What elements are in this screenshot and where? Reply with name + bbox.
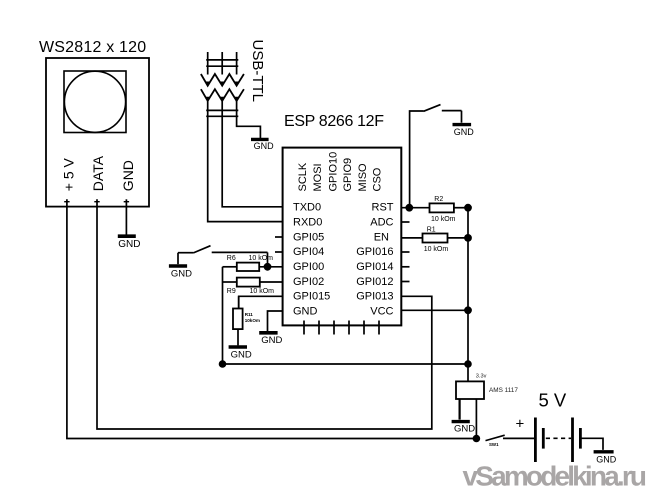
pin +5V of WS2812	[60, 157, 76, 201]
svg-text:+ 5 V: + 5 V	[60, 157, 76, 191]
svg-text:GPI05: GPI05	[293, 232, 324, 244]
svg-text:GPIO9: GPIO9	[342, 158, 354, 192]
junction left rail corner	[219, 360, 227, 368]
svg-text:10 kOm: 10 kOm	[424, 246, 449, 253]
svg-text:GND: GND	[454, 424, 475, 435]
pin GPI05	[275, 232, 324, 244]
svg-text:GND: GND	[231, 349, 252, 360]
svg-text:10 kOm: 10 kOm	[249, 255, 274, 262]
resistor R6	[223, 263, 283, 271]
connector USB-TTL (three leads with plug chevrons)	[201, 52, 244, 116]
arrow tips of USB-TTL plug	[205, 82, 239, 102]
svg-text:VCC: VCC	[370, 306, 393, 318]
ground GND under R11	[229, 347, 252, 360]
svg-text:vSamodelkina.ru: vSamodelkina.ru	[463, 460, 647, 491]
battery BT1	[535, 418, 580, 463]
wire 3.3V rail horizontal to pull-ups	[223, 363, 469, 365]
svg-text:GND: GND	[261, 335, 282, 346]
svg-text:SCLK: SCLK	[297, 162, 309, 191]
svg-text:GPI013: GPI013	[356, 291, 393, 303]
resistor R1	[423, 234, 469, 243]
svg-text:TXD0: TXD0	[293, 202, 321, 214]
ground GND of switch S1	[169, 253, 192, 280]
svg-text:R9: R9	[227, 288, 236, 295]
svg-text:R2: R2	[434, 196, 443, 203]
svg-text:GPI016: GPI016	[356, 246, 393, 258]
svg-text:GND: GND	[254, 141, 275, 151]
pin DATA of WS2812	[90, 155, 106, 201]
wire 3.3V rail vertical	[467, 208, 469, 382]
svg-text:10 kOm: 10 kOm	[431, 216, 456, 223]
svg-text:+: +	[516, 416, 525, 433]
svg-text:MISO: MISO	[357, 163, 369, 192]
junction VCC node	[464, 306, 472, 314]
pin GPI016	[356, 246, 409, 258]
svg-text:RXD0: RXD0	[293, 217, 322, 229]
wire battery minus to ground	[580, 438, 603, 450]
svg-text:R1: R1	[427, 226, 436, 233]
svg-text:10kOm: 10kOm	[245, 318, 260, 323]
svg-text:GPI00: GPI00	[293, 261, 324, 273]
pin GND of WS2812	[120, 160, 136, 202]
svg-text:AMS 1117: AMS 1117	[489, 387, 518, 394]
wire regulator 5V input lead	[475, 399, 477, 439]
switch S2 on RST	[424, 105, 462, 123]
svg-text:GND: GND	[293, 306, 318, 318]
resistor R2	[430, 203, 469, 212]
svg-text:R6: R6	[227, 255, 236, 262]
switch S1 on GPIO0	[178, 246, 268, 267]
regulator U2 AMS1117	[456, 381, 484, 399]
svg-text:GPIO10: GPIO10	[328, 152, 340, 192]
wire RST to R2	[401, 207, 429, 209]
bottom pins of ESP module	[304, 321, 379, 335]
pin GPI012	[356, 276, 409, 288]
svg-text:USB-TTL: USB-TTL	[249, 40, 266, 103]
junction R1 to 3.3V rail	[464, 234, 472, 242]
svg-text:GND: GND	[118, 239, 140, 250]
wire VCC to 3.3V rail	[401, 309, 468, 311]
wire regulator GND lead	[459, 399, 461, 420]
svg-text:R11: R11	[245, 312, 254, 317]
wire 3.3V feed to R6/R9 (left rail)	[222, 267, 224, 364]
pin GPI014	[356, 261, 409, 273]
pin GPI04	[275, 246, 324, 258]
wire EN to R1	[401, 237, 422, 239]
svg-text:EN: EN	[374, 232, 389, 244]
svg-text:CSO: CSO	[372, 167, 384, 191]
junction on GPIO0 node	[264, 263, 272, 271]
module WS2812 LED strip body	[46, 58, 149, 207]
svg-text:GPI04: GPI04	[293, 246, 324, 258]
svg-text:RST: RST	[372, 202, 394, 214]
wire USB-TTL lead to RXD0	[208, 106, 283, 222]
wire switch to battery	[503, 437, 535, 439]
wire USB-TTL lead to TXD0	[222, 106, 282, 207]
svg-text:10 kOm: 10 kOm	[250, 288, 275, 295]
svg-text:GPI02: GPI02	[293, 276, 324, 288]
resistor R11	[233, 296, 243, 345]
svg-text:MOSI: MOSI	[312, 163, 324, 191]
wire GPIO15 to R11	[239, 296, 283, 308]
junction RST node	[405, 204, 413, 212]
switch SW1 on battery	[486, 435, 505, 440]
junction 5V node	[473, 435, 481, 443]
junction 3.3V rail at regulator	[464, 360, 472, 368]
svg-text:5 V: 5 V	[539, 390, 567, 411]
svg-text:ADC: ADC	[370, 217, 393, 229]
ground GND of USB-TTL	[251, 139, 274, 150]
svg-text:3.3v: 3.3v	[476, 374, 487, 380]
wire USB-TTL ground lead	[237, 106, 261, 138]
ground GND under WS2812	[118, 199, 141, 250]
IC U1 ESP8266-12F body	[283, 148, 402, 326]
wire +5V net: WS2812 +5V down and across to 5V node	[67, 199, 477, 438]
pin ADC	[370, 217, 409, 229]
ground GND of ESP	[259, 333, 282, 346]
svg-text:SW1: SW1	[489, 442, 499, 447]
svg-text:GND: GND	[120, 160, 136, 191]
wire RST to reset switch	[410, 111, 424, 208]
svg-text:GPI012: GPI012	[356, 276, 393, 288]
ground GND of regulator	[452, 422, 476, 435]
svg-text:GPI015: GPI015	[293, 291, 330, 303]
svg-text:GPI014: GPI014	[356, 261, 393, 273]
wire ESP GND pin lead	[268, 311, 283, 331]
wire DATA net: WS2812 DATA down, across, up to GPIO13	[97, 199, 432, 429]
junction R2 to 3.3V rail	[464, 204, 472, 212]
resistor R9	[223, 278, 283, 287]
ground GND of battery	[594, 452, 617, 465]
svg-text:GND: GND	[171, 268, 192, 279]
svg-text:ESP 8266 12F: ESP 8266 12F	[284, 113, 384, 130]
ground GND of switch S2	[453, 125, 475, 137]
svg-text:GND: GND	[454, 127, 475, 137]
svg-text:WS2812 x 120: WS2812 x 120	[39, 39, 146, 56]
svg-text:DATA: DATA	[90, 155, 106, 191]
